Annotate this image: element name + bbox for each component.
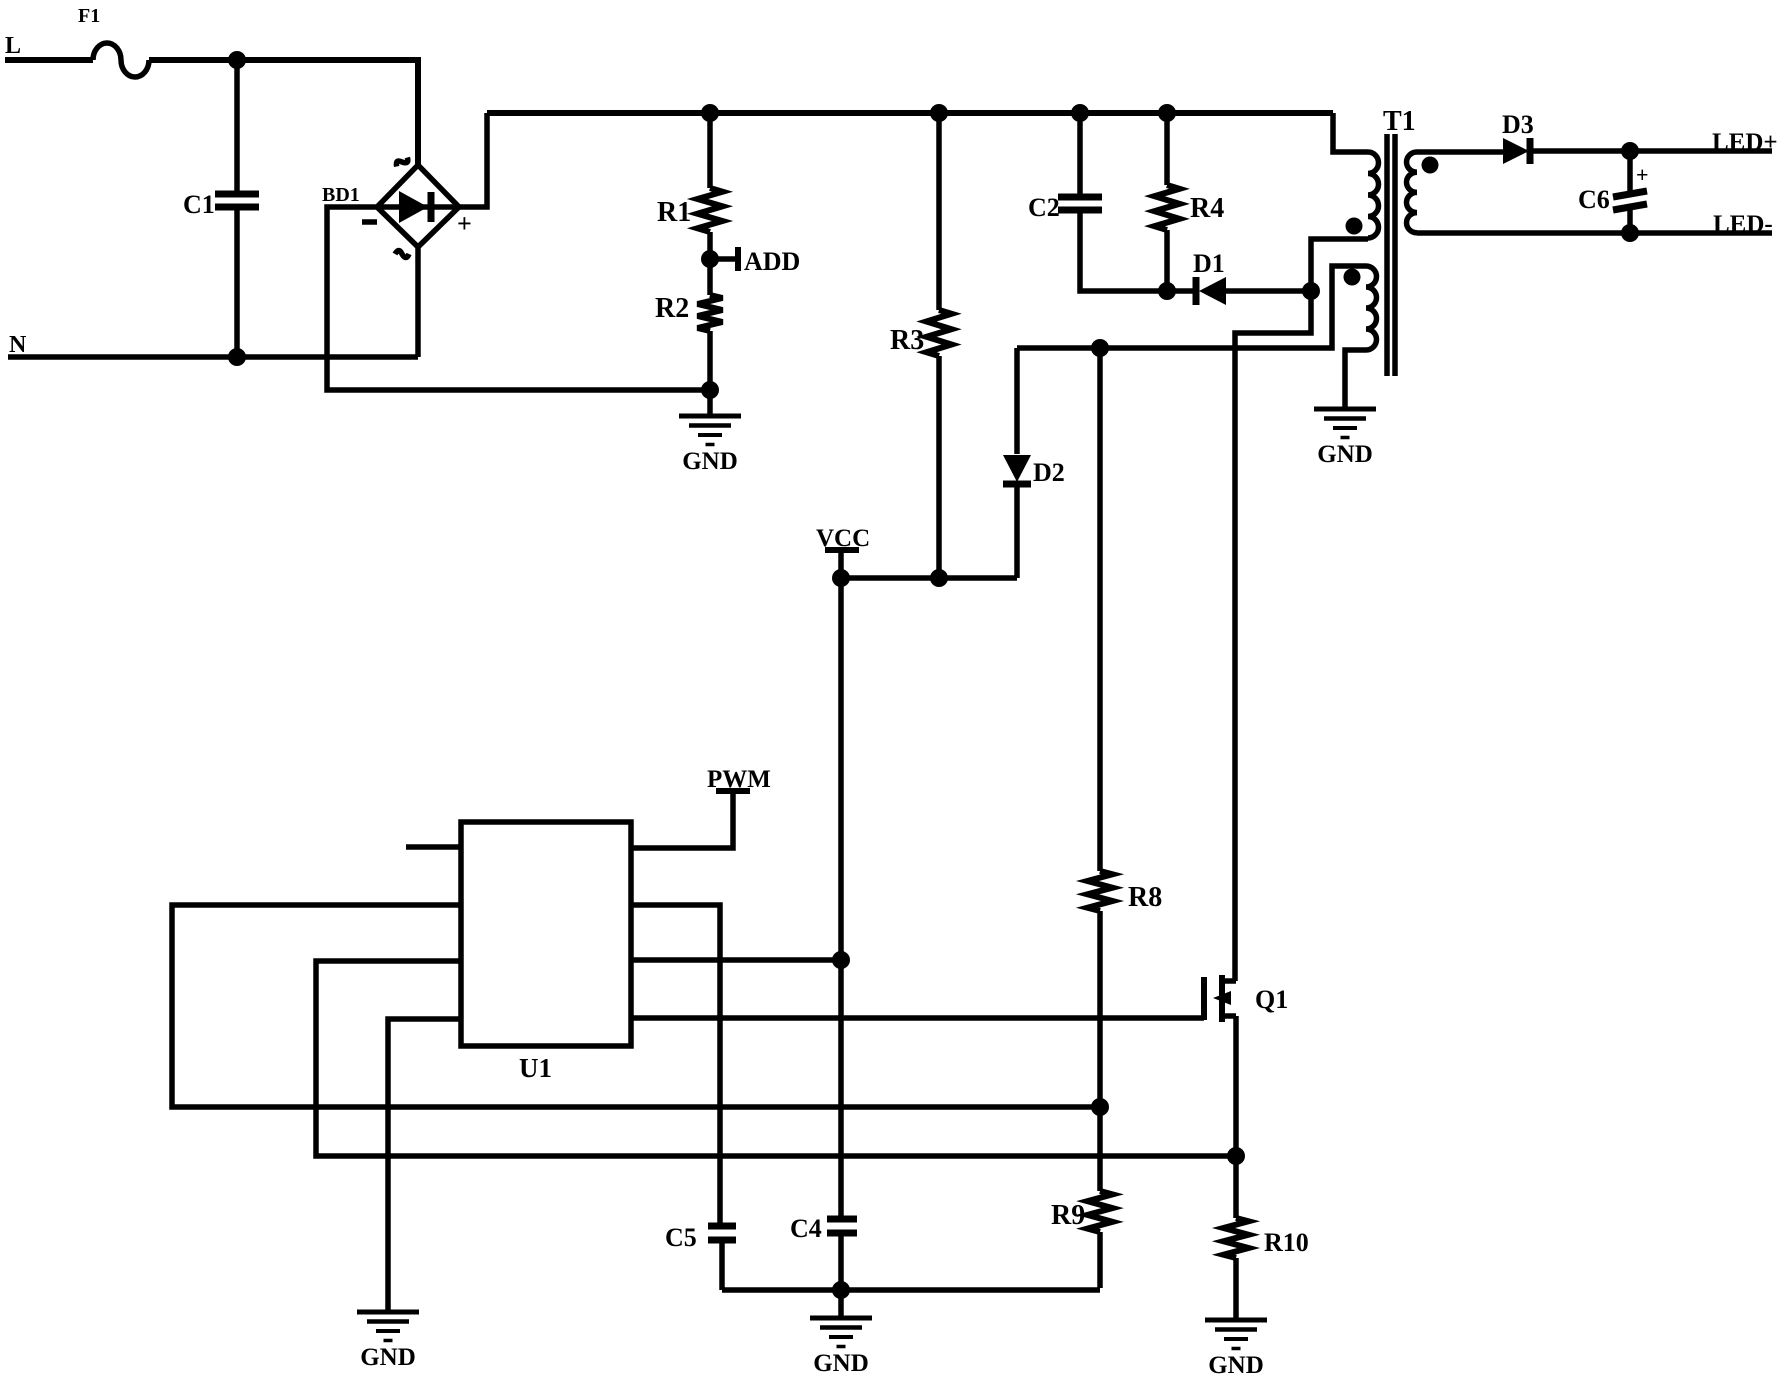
transformer T1 core xyxy=(1383,106,1416,376)
svg-text:PWM: PWM xyxy=(707,766,771,793)
svg-text:GND: GND xyxy=(682,448,738,475)
junction D1/primary/drain xyxy=(1302,282,1320,300)
wire bridge minus to ground node xyxy=(327,207,710,390)
svg-text:GND: GND xyxy=(813,1350,869,1377)
wire Q1 source down xyxy=(1233,1016,1239,1156)
resistor R10 xyxy=(1224,1156,1309,1318)
capacitor C2 xyxy=(1028,113,1167,291)
svg-text:GND: GND xyxy=(1208,1352,1264,1377)
junction N/C1 xyxy=(228,348,246,366)
wire D1 node to primary bottom xyxy=(1311,239,1368,291)
fuse F1 xyxy=(78,5,149,77)
svg-text:C4: C4 xyxy=(790,1214,822,1243)
svg-text:+: + xyxy=(1636,162,1649,187)
svg-text:BD1: BD1 xyxy=(322,184,360,206)
resistor R3 xyxy=(890,113,952,578)
svg-text:R3: R3 xyxy=(890,325,924,356)
capacitor C4 xyxy=(790,1214,857,1290)
svg-text:T1: T1 xyxy=(1383,106,1416,137)
svg-text:GND: GND xyxy=(1317,441,1373,468)
node PWM xyxy=(631,766,771,848)
IC U1 xyxy=(461,822,631,1083)
U1 pin stub top-left xyxy=(406,844,461,850)
svg-text:D2: D2 xyxy=(1033,458,1065,487)
wire bridge plus up to DC rail xyxy=(459,113,487,207)
junction rail/R3 xyxy=(930,104,948,122)
wire ground stub under R2 xyxy=(707,390,713,415)
resistor R2 xyxy=(655,259,723,390)
resistor R9 xyxy=(1051,1107,1113,1288)
wire aux bottom to ground xyxy=(1345,350,1366,408)
junction L/C1 xyxy=(228,51,246,69)
svg-text:ADD: ADD xyxy=(744,247,800,276)
svg-text:R1: R1 xyxy=(657,197,691,228)
junction R1/R2/ADD xyxy=(701,250,719,268)
ground below T1 xyxy=(1314,409,1376,468)
resistor R8 xyxy=(1088,348,1163,1107)
svg-text:F1: F1 xyxy=(78,5,100,27)
wire U1 pin to VCC xyxy=(631,957,841,963)
wire L input line xyxy=(5,57,93,63)
wire U1 gate drive to Q1 xyxy=(631,1015,1204,1021)
diode D1 xyxy=(1167,249,1311,305)
wire fuse to L junction xyxy=(149,57,237,63)
junction aux line / R8 xyxy=(1091,339,1109,357)
wire N to bridge bottom xyxy=(415,247,421,357)
ground below R2 xyxy=(679,416,741,475)
wire secondary top to D3 xyxy=(1417,149,1503,155)
wire secondary bottom / LED- line xyxy=(1417,230,1772,236)
diode D3 xyxy=(1502,110,1772,164)
svg-text:C5: C5 xyxy=(665,1223,697,1252)
svg-text:U1: U1 xyxy=(519,1053,552,1083)
wire U1 pin to R8 bottom (feedback) xyxy=(172,905,1100,1107)
transistor Q1 xyxy=(1204,975,1288,1022)
ground below C4 xyxy=(810,1318,872,1377)
power symbol VCC xyxy=(816,525,870,578)
capacitor C1 xyxy=(183,60,259,357)
junction ground rail/C4 xyxy=(832,1281,850,1299)
junction R8/R9/U1 sense xyxy=(1091,1098,1109,1116)
junction LED-/C6 xyxy=(1621,224,1639,242)
svg-text:R9: R9 xyxy=(1051,1200,1085,1231)
svg-text:C2: C2 xyxy=(1028,193,1060,222)
wire U1 pin to C5 xyxy=(631,905,720,1226)
transformer T1 auxiliary winding xyxy=(1366,266,1377,350)
wire L rail to bridge top xyxy=(237,60,418,164)
transformer T1 primary winding xyxy=(1368,152,1379,238)
svg-text:D3: D3 xyxy=(1502,110,1534,139)
junction Q1 source/R10 xyxy=(1227,1147,1245,1165)
svg-text:Q1: Q1 xyxy=(1255,985,1288,1014)
secondary polarity dot xyxy=(1422,157,1439,174)
junction rail/R4 xyxy=(1158,104,1176,122)
primary polarity dot xyxy=(1346,218,1363,235)
node ADD tap xyxy=(710,247,800,276)
svg-text:L: L xyxy=(5,33,21,59)
ground below R10 xyxy=(1205,1320,1267,1377)
wire DC top rail xyxy=(487,110,1333,116)
wire aux top to VCC diode line xyxy=(1017,266,1366,348)
resistor R4 xyxy=(1155,113,1225,291)
svg-text:N: N xyxy=(9,332,27,358)
junction rail/C2 xyxy=(1071,104,1089,122)
transformer T1 secondary winding xyxy=(1407,152,1418,233)
svg-text:LED-: LED- xyxy=(1713,211,1773,238)
junction VCC stub xyxy=(832,569,850,587)
junction rail/R1 xyxy=(701,104,719,122)
svg-text:C6: C6 xyxy=(1578,185,1610,214)
svg-text:C1: C1 xyxy=(183,190,215,219)
svg-text:LED+: LED+ xyxy=(1712,129,1777,156)
wire VCC node line xyxy=(841,575,1017,581)
junction VCC/R3 xyxy=(930,569,948,587)
svg-text:R8: R8 xyxy=(1128,882,1162,913)
svg-text:GND: GND xyxy=(360,1344,416,1371)
svg-text:R2: R2 xyxy=(655,293,689,324)
wire N line xyxy=(8,354,418,360)
bridge rectifier BD1 xyxy=(322,155,472,258)
wire U1 pin to Q1 source sense xyxy=(316,961,1236,1156)
wire ground rail C5/C4/R9 xyxy=(722,1287,1100,1293)
wire VCC vertical to C4 xyxy=(838,578,844,1219)
wire rail to primary top xyxy=(1333,113,1368,152)
junction VCC/U1 pin xyxy=(832,951,850,969)
junction C2/R4/D1 xyxy=(1158,282,1176,300)
wire ground stub under C4 xyxy=(838,1290,844,1317)
wire U1 ground pin xyxy=(388,1019,461,1311)
auxiliary polarity dot xyxy=(1344,269,1361,286)
capacitor C5 xyxy=(665,1223,736,1290)
capacitor C6 xyxy=(1578,151,1649,233)
svg-text:D1: D1 xyxy=(1193,249,1225,278)
wire primary bottom to Q1 drain xyxy=(1235,291,1311,981)
diode D2 xyxy=(1003,348,1065,578)
svg-text:VCC: VCC xyxy=(816,525,870,552)
junction LED+/C6 xyxy=(1621,142,1639,160)
svg-text:+: + xyxy=(457,209,472,238)
svg-text:R10: R10 xyxy=(1264,1228,1309,1257)
ground below U1 xyxy=(357,1312,419,1371)
junction R2/bridge-minus/ground xyxy=(701,381,719,399)
svg-text:R4: R4 xyxy=(1190,193,1224,224)
resistor R1 xyxy=(657,113,723,259)
